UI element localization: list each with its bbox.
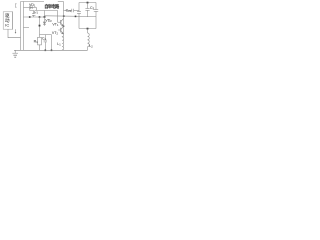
node dot rail drop <box>51 50 53 52</box>
node arrowhead <box>15 32 17 34</box>
svg-text:IC: IC <box>5 23 9 28</box>
wire pin arrow from IC bottom <box>15 29 17 32</box>
node dot VS-right <box>75 16 77 18</box>
capacitor C1 <box>32 11 35 18</box>
wire bridge power path <box>62 2 63 38</box>
ground <box>12 50 18 57</box>
wire right block left edge <box>78 3 80 12</box>
node dot VD2 tap <box>44 16 46 18</box>
svg-text:自举电路: 自举电路 <box>44 3 60 10</box>
node dot at bridge top <box>63 15 65 17</box>
diode VD2 <box>43 11 46 26</box>
label driver IC vertical text <box>5 13 10 27</box>
wire right top rail <box>79 2 96 4</box>
wire VS horizontal line <box>24 16 45 18</box>
svg-text:R1: R1 <box>34 39 39 44</box>
resistor R1 <box>38 37 42 50</box>
svg-text:C21: C21 <box>66 9 72 14</box>
capacitor C2 <box>72 9 79 13</box>
capacitor C5 <box>85 3 89 18</box>
node dot on R feed <box>39 25 41 27</box>
node dot VS-R branch <box>39 16 41 18</box>
wire RC top link <box>40 34 52 36</box>
svg-text:VD2: VD2 <box>45 19 52 24</box>
wire right drop of RC link <box>51 35 53 51</box>
capacitor C4 <box>44 35 47 51</box>
inductor L2 <box>88 29 90 51</box>
inductor L1 <box>62 37 64 50</box>
capacitor C3 <box>94 3 98 18</box>
node dot right rail <box>87 2 89 4</box>
node dot mid rail <box>87 28 89 30</box>
wire vertical bus A <box>20 2 22 51</box>
wire C2 link <box>64 10 72 12</box>
svg-text:VT1: VT1 <box>52 22 59 27</box>
wire right block right edge <box>95 17 97 29</box>
wire top rail right of title <box>58 1 64 3</box>
wire R feed vertical <box>39 17 41 37</box>
wire pin down from IC bottom to ground path <box>8 29 21 38</box>
svg-text:C1: C1 <box>34 10 39 15</box>
diode VD1 <box>24 6 37 9</box>
wire HO line <box>37 8 58 23</box>
wire LO stub <box>24 27 30 29</box>
wire right mid rail <box>79 28 96 30</box>
wire vertical bus B <box>23 2 25 51</box>
wire bottom rail <box>14 49 88 51</box>
driver IC box <box>3 12 13 29</box>
wire top rail left <box>21 1 45 3</box>
svg-text:L1: L1 <box>57 42 61 47</box>
transistor VT1 <box>58 19 64 26</box>
node dot VS-left <box>29 16 31 18</box>
svg-text:L2: L2 <box>89 44 93 49</box>
svg-text:VT2: VT2 <box>52 31 59 36</box>
transistor VT2 <box>58 26 63 33</box>
svg-text:C3: C3 <box>90 6 95 11</box>
svg-text:VD1: VD1 <box>29 3 36 8</box>
input terminal bracket <box>15 4 16 7</box>
svg-text:C4: C4 <box>42 37 46 42</box>
node dot bridge mid <box>63 26 65 28</box>
node dot rail C4 <box>45 50 47 52</box>
wire from diode to C1 top <box>30 8 34 11</box>
